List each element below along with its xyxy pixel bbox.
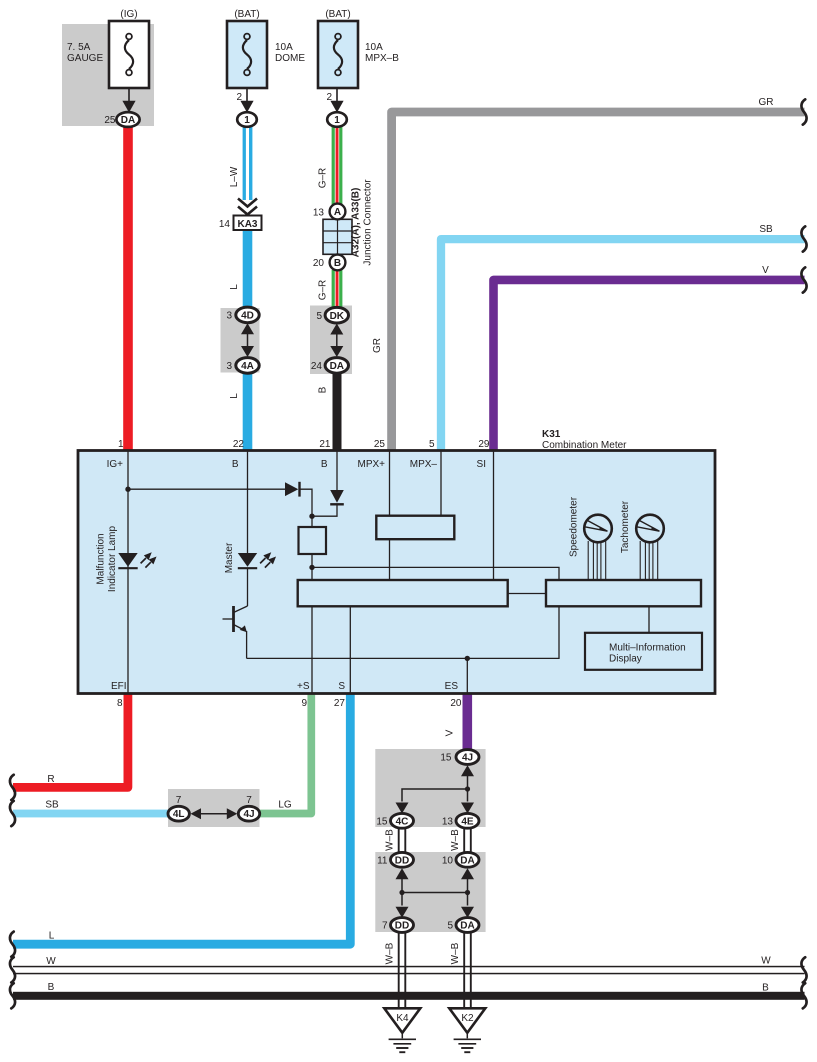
svg-text:K2: K2: [461, 1013, 474, 1024]
svg-text:IG+: IG+: [107, 459, 124, 470]
svg-text:GR: GR: [372, 338, 383, 353]
svg-text:Speedometer: Speedometer: [569, 496, 580, 557]
svg-text:8: 8: [117, 698, 123, 709]
svg-text:GR: GR: [759, 97, 774, 108]
svg-text:24: 24: [311, 361, 323, 372]
svg-text:DA: DA: [330, 361, 344, 372]
svg-text:15: 15: [376, 816, 388, 827]
svg-text:11: 11: [377, 855, 388, 866]
svg-text:4J: 4J: [462, 753, 473, 764]
svg-text:7: 7: [246, 795, 252, 806]
svg-text:14: 14: [219, 219, 231, 230]
svg-text:20: 20: [450, 698, 462, 709]
svg-text:+S: +S: [297, 681, 310, 692]
svg-text:S: S: [338, 681, 345, 692]
svg-text:A32(A), A33(B): A32(A), A33(B): [351, 188, 362, 258]
svg-text:KA3: KA3: [237, 219, 257, 230]
svg-text:Junction Connector: Junction Connector: [363, 179, 374, 266]
svg-text:MPX–: MPX–: [410, 459, 438, 470]
svg-text:B: B: [318, 386, 329, 393]
svg-text:DD: DD: [395, 921, 409, 932]
svg-text:10A: 10A: [275, 42, 293, 53]
svg-text:DA: DA: [121, 115, 135, 126]
svg-text:2: 2: [326, 92, 332, 103]
svg-text:V: V: [445, 729, 456, 736]
svg-text:4L: 4L: [173, 809, 185, 820]
svg-text:4E: 4E: [461, 816, 474, 827]
svg-text:15: 15: [440, 753, 452, 764]
svg-text:(IG): (IG): [120, 9, 137, 20]
svg-text:10A: 10A: [365, 42, 383, 53]
svg-text:1: 1: [244, 115, 250, 126]
svg-text:7: 7: [176, 795, 182, 806]
svg-text:L–W: L–W: [229, 166, 240, 187]
svg-text:Malfunction: Malfunction: [96, 533, 107, 584]
svg-text:13: 13: [442, 816, 454, 827]
svg-text:L: L: [229, 393, 240, 399]
svg-text:W–B: W–B: [385, 829, 396, 851]
svg-text:ES: ES: [445, 681, 459, 692]
svg-text:3: 3: [226, 361, 232, 372]
svg-text:G–R: G–R: [318, 168, 329, 189]
svg-text:B: B: [334, 258, 341, 269]
svg-text:B: B: [321, 459, 328, 470]
svg-text:21: 21: [319, 439, 331, 450]
svg-text:DOME: DOME: [275, 53, 305, 64]
svg-text:13: 13: [313, 207, 325, 218]
svg-text:1: 1: [334, 115, 340, 126]
svg-text:27: 27: [334, 698, 346, 709]
svg-text:SI: SI: [477, 459, 486, 470]
svg-text:W–B: W–B: [450, 829, 461, 851]
svg-text:L: L: [229, 284, 240, 290]
svg-text:B: B: [232, 459, 239, 470]
svg-text:SB: SB: [759, 224, 773, 235]
svg-text:K4: K4: [396, 1013, 409, 1024]
svg-text:DD: DD: [395, 855, 409, 866]
svg-text:G–R: G–R: [318, 280, 329, 301]
svg-text:W–B: W–B: [450, 942, 461, 964]
svg-text:W–B: W–B: [385, 942, 396, 964]
svg-text:SB: SB: [45, 800, 59, 811]
svg-text:EFI: EFI: [111, 681, 127, 692]
svg-text:(BAT): (BAT): [234, 9, 259, 20]
svg-text:20: 20: [313, 258, 325, 269]
svg-text:Tachometer: Tachometer: [620, 500, 631, 553]
svg-text:B: B: [762, 983, 769, 994]
svg-text:Master: Master: [224, 542, 235, 573]
svg-text:GAUGE: GAUGE: [67, 53, 103, 64]
svg-text:5: 5: [316, 311, 322, 322]
svg-text:DA: DA: [460, 855, 474, 866]
svg-text:K31: K31: [542, 429, 561, 440]
svg-text:4D: 4D: [241, 311, 254, 322]
svg-text:4J: 4J: [243, 809, 254, 820]
svg-text:4C: 4C: [396, 816, 409, 827]
svg-text:5: 5: [429, 439, 435, 450]
svg-text:MPX+: MPX+: [357, 459, 385, 470]
svg-text:A: A: [334, 207, 341, 218]
svg-text:DA: DA: [460, 921, 474, 932]
svg-text:22: 22: [233, 439, 245, 450]
svg-text:3: 3: [226, 311, 232, 322]
svg-text:7: 7: [382, 921, 388, 932]
svg-text:DK: DK: [330, 311, 345, 322]
svg-text:Multi–Information: Multi–Information: [609, 643, 686, 654]
svg-text:Display: Display: [609, 654, 642, 665]
svg-text:25: 25: [374, 439, 386, 450]
svg-text:29: 29: [478, 439, 490, 450]
svg-text:V: V: [762, 265, 769, 276]
svg-text:4A: 4A: [241, 361, 254, 372]
svg-text:(BAT): (BAT): [325, 9, 350, 20]
svg-text:LG: LG: [278, 800, 292, 811]
svg-text:MPX–B: MPX–B: [365, 53, 399, 64]
svg-text:W: W: [46, 956, 56, 967]
svg-text:Combination Meter: Combination Meter: [542, 440, 627, 451]
svg-text:7. 5A: 7. 5A: [67, 42, 91, 53]
svg-text:1: 1: [118, 439, 124, 450]
svg-text:W: W: [761, 956, 771, 967]
svg-text:5: 5: [447, 921, 453, 932]
svg-text:2: 2: [236, 92, 242, 103]
svg-text:9: 9: [301, 698, 307, 709]
svg-text:L: L: [49, 931, 55, 942]
svg-text:25: 25: [104, 115, 116, 126]
svg-text:Indicator Lamp: Indicator Lamp: [107, 525, 118, 592]
svg-text:B: B: [48, 982, 55, 993]
svg-text:10: 10: [442, 855, 454, 866]
svg-text:R: R: [47, 774, 54, 785]
